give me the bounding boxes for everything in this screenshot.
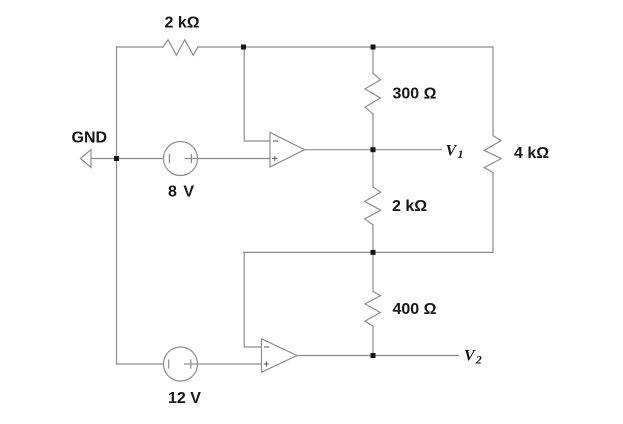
- wire: 300 Ohm top segment: [372, 47, 374, 73]
- voltage source V1 8V circle: [164, 142, 198, 176]
- op-amp U2 triangle: [262, 339, 298, 372]
- 8V source plus mark: [190, 155, 192, 163]
- svg-text:2: 2: [475, 353, 482, 367]
- resistor 4 kOhm vertical: [484, 136, 501, 173]
- op-amp U2 plus input sign: [264, 363, 269, 365]
- wire: U1 output to V1 label: [305, 149, 442, 151]
- svg-text:1: 1: [458, 147, 464, 161]
- wire: 300 Ohm to 2 kOhm vertical (through V1 node): [372, 114, 374, 187]
- svg-text:400 Ω: 400 Ω: [393, 301, 437, 318]
- 12V source plus mark: [190, 360, 192, 368]
- junction dot V2 node: [371, 353, 376, 358]
- ground symbol triangle: [81, 150, 92, 168]
- wire: bottom-mid horizontal net: [244, 251, 494, 253]
- resistor 400 Ohm vertical: [365, 292, 380, 327]
- wire: U2 output to V2 label: [297, 355, 459, 357]
- op-amp U2 minus input sign: [264, 346, 269, 348]
- svg-text:12 V: 12 V: [168, 390, 201, 407]
- resistor 300 Ohm vertical: [365, 73, 381, 114]
- junction dot ground node: [114, 156, 119, 161]
- resistor R1 2 kOhm horizontal: [163, 40, 198, 55]
- wire: top net, left rail to R1: [117, 46, 164, 48]
- resistor R3 2 kOhm vertical: [365, 187, 381, 225]
- 8V source negative plate mark: [168, 155, 170, 163]
- wire: 2 kOhm to bottom-mid node: [372, 225, 374, 253]
- wire: left rail corner to 12V source: [117, 363, 164, 365]
- svg-text:300 Ω: 300 Ω: [393, 86, 437, 103]
- junction dot bottom-mid node: [371, 250, 376, 255]
- svg-text:4 kΩ: 4 kΩ: [514, 145, 549, 162]
- junction dot node A (feedback/top net): [241, 45, 246, 50]
- svg-text:V: V: [464, 348, 476, 365]
- svg-text:8 V: 8 V: [168, 184, 194, 201]
- wire: 12V source to op-amp U2 + input: [198, 363, 262, 365]
- wire: ground node horizontal to 8V source: [91, 158, 164, 160]
- op-amp U1 minus input sign: [273, 140, 278, 142]
- op-amp U1 triangle: [270, 132, 305, 167]
- svg-text:2 kΩ: 2 kΩ: [165, 15, 200, 32]
- wire: right rail bottom segment: [492, 173, 494, 253]
- 12V source negative plate mark: [168, 360, 170, 368]
- wire: right rail top segment: [492, 47, 494, 136]
- junction dot V1 node: [371, 147, 376, 152]
- wire: left rail vertical: [116, 47, 118, 364]
- wire: feedback from node A down to U1 - input: [244, 47, 270, 141]
- wire: feedback from bottom-mid net down to U2 - input: [244, 252, 261, 347]
- voltage source V2 12V circle: [164, 347, 198, 381]
- wire: 400 Ohm top segment: [372, 252, 374, 291]
- wire: R1 to top-right corner: [198, 46, 493, 48]
- wire: 400 Ohm to V2 node: [372, 326, 374, 355]
- svg-text:GND: GND: [72, 130, 108, 147]
- junction dot 300 Ohm top: [371, 45, 376, 50]
- op-amp U1 plus input sign: [272, 158, 277, 160]
- svg-text:V: V: [446, 143, 458, 160]
- svg-text:2 kΩ: 2 kΩ: [392, 198, 427, 215]
- wire: 8V source to op-amp U1 + input: [198, 158, 271, 160]
